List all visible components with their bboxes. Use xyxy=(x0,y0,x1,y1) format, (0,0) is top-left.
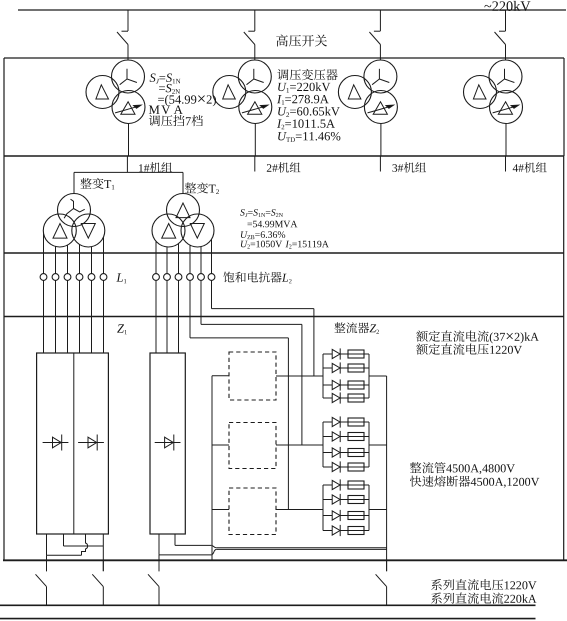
diode D31 xyxy=(323,484,332,486)
label 系列直流电压1220V xyxy=(431,579,442,590)
label SJ=S1N xyxy=(150,74,156,82)
wire to dashed box 3 xyxy=(212,509,229,511)
label 3#机组 xyxy=(392,164,397,172)
fuse F22 xyxy=(348,433,364,441)
diode symbol cabinet 1B xyxy=(78,442,104,444)
wire ~220kV top bus xyxy=(18,9,566,11)
rectifier group Z2-3 right bus xyxy=(368,485,370,531)
wire T1 lead xyxy=(79,244,81,273)
wire lead to rectifier Z1 cabinet 2 xyxy=(178,280,180,353)
label I2=1011.5A xyxy=(277,120,282,128)
diode D11 xyxy=(323,353,332,355)
wire T1 lead xyxy=(91,247,93,274)
T1 delta winding circle xyxy=(43,214,76,247)
diode D22 xyxy=(323,436,332,438)
saturable reactor L1 element xyxy=(40,274,47,281)
disconnector switch QS4 (高压开关) xyxy=(505,10,507,31)
wire stub unit 3 xyxy=(379,156,381,172)
label 高压开关 xyxy=(276,34,288,46)
disconnector switch QS1 (高压开关) xyxy=(127,10,129,31)
regulating transformer T1 (调压变压器) - star winding circle xyxy=(112,60,145,93)
label M xyxy=(149,106,160,114)
label 系列直流电流220kA xyxy=(431,593,442,604)
wire lead to rectifier Z1 xyxy=(103,280,105,353)
series switch S4 xyxy=(386,560,388,571)
wire lead to rectifier Z1 xyxy=(91,280,93,353)
label =54.99MVA xyxy=(247,223,252,225)
label 额定直流电流(37×2)kA xyxy=(416,330,428,341)
wire T2 lead xyxy=(189,245,191,273)
rectifier transformer T2 (整变T2) top winding circle (delta) xyxy=(167,194,200,227)
label ~220kV xyxy=(484,5,491,7)
label 整流管4500A,4800V xyxy=(410,462,421,473)
rectifier group Z2-1 left bus xyxy=(322,354,324,398)
diode symbol cabinet 2 xyxy=(155,442,181,444)
wire cab1 foot a xyxy=(46,534,48,555)
wire T2 lead xyxy=(200,247,202,274)
saturable reactor L2 element xyxy=(164,274,171,281)
wire lead to rectifier Z1 xyxy=(67,280,69,353)
label Z1 xyxy=(117,324,124,332)
diode D32 xyxy=(323,499,332,501)
diode D34 xyxy=(323,530,332,532)
label V xyxy=(161,106,170,115)
wire T2 lead xyxy=(166,247,168,274)
saturable reactor L1 element xyxy=(88,274,95,281)
diode symbol cabinet 1A xyxy=(43,442,69,444)
disconnector switch QS2 (高压开关) xyxy=(254,10,256,31)
wire Z2 left bus xyxy=(211,376,213,560)
T3 regulating winding circle with arrow xyxy=(364,91,397,124)
wire T1 lead xyxy=(67,245,69,274)
wire lead to Z2 (staircase 3) xyxy=(211,280,213,308)
saturable reactor L1 element xyxy=(52,274,59,281)
fuse F24 xyxy=(348,463,364,471)
wire cab2 foot a xyxy=(158,534,160,555)
wire dashed box 3 to group 3 input xyxy=(276,509,323,511)
fuse F14 xyxy=(348,394,364,402)
label =S2N xyxy=(159,86,165,89)
wire to dashed box 2 xyxy=(212,444,229,446)
T2 delta winding circle xyxy=(152,214,185,247)
wire cab1 foot d xyxy=(102,534,104,546)
fuse F34 xyxy=(348,527,364,535)
rectifier cabinet Z1 unit 1 xyxy=(37,353,109,534)
diode D21 xyxy=(323,421,332,423)
fuse F23 xyxy=(348,449,364,457)
series switch S1 xyxy=(46,560,48,571)
fuse F13 xyxy=(348,381,364,389)
wire lead to rectifier Z1 xyxy=(43,280,45,353)
fuse F11 xyxy=(348,350,364,358)
diode D14 xyxy=(323,397,332,399)
wire cab1 foot c (hops crossing) to a xyxy=(82,534,88,555)
wire bottom frame xyxy=(0,618,536,620)
wire switch feed xyxy=(46,555,48,571)
dashed box (reserved rectifier) 3 xyxy=(229,488,276,535)
saturable reactor L2 element xyxy=(153,274,160,281)
T2 regulating winding circle with arrow xyxy=(239,91,272,124)
rectifier group Z2-1 right bus xyxy=(368,354,370,398)
wire T2 lead xyxy=(211,239,213,273)
wire lead to rectifier Z1 cabinet 2 xyxy=(155,280,157,353)
wire to dashed box 1 xyxy=(212,375,229,377)
fuse F32 xyxy=(348,496,364,504)
saturable reactor L1 element xyxy=(100,274,107,281)
wire T1 lead xyxy=(43,233,45,274)
rectifier group Z2-2 right bus xyxy=(368,422,370,467)
label 整变T1 xyxy=(80,178,91,189)
disconnector switch QS3 (高压开关) xyxy=(379,10,381,31)
wire unit1 drop xyxy=(126,156,128,172)
label I2=15119A xyxy=(285,241,289,247)
wire jog over Z2 bus 2 xyxy=(211,545,216,547)
wire lead to rectifier Z1 xyxy=(79,280,81,353)
rectifier group Z2-2 left bus xyxy=(322,422,324,467)
T1 inverse-star winding circle xyxy=(72,214,105,247)
diode D23 xyxy=(323,452,332,454)
wire T2 to unit bus xyxy=(254,124,256,157)
saturable reactor L1 element xyxy=(64,274,71,281)
wire lead to rectifier Z1 cabinet 2 xyxy=(166,280,168,353)
wire cab1 foot b to d xyxy=(63,534,65,546)
label 调压变压器 xyxy=(277,69,288,80)
saturable reactor L2 element xyxy=(208,274,215,281)
saturable reactor L2 element xyxy=(187,274,194,281)
saturable reactor L2 element xyxy=(175,274,182,281)
T1 delta winding circle xyxy=(86,76,119,109)
label U1=220kV xyxy=(278,83,287,91)
wire T1 lead xyxy=(55,246,57,273)
fuse F33 xyxy=(348,512,364,520)
T1 regulating winding circle with arrow xyxy=(112,91,145,124)
wire Z2 output bus xyxy=(386,376,388,571)
wire switch feed xyxy=(102,546,104,571)
diode D24 xyxy=(323,466,332,468)
diode D12 xyxy=(323,367,332,369)
wire stub unit 4 xyxy=(505,156,507,172)
wire group 2 output xyxy=(369,444,387,446)
label U2=1050V xyxy=(241,241,248,248)
saturable reactor L2 element xyxy=(198,274,205,281)
wire cab2 foot b xyxy=(174,534,176,545)
wire dashed box 1 to group 1 input xyxy=(276,375,323,377)
label 4#机组 xyxy=(513,164,518,172)
wire series DC bus 1 xyxy=(3,559,567,561)
rectifier group Z2-3 left bus xyxy=(322,485,324,531)
wire to rectifier transformers xyxy=(74,171,183,173)
wire lead to Z2 (staircase 2) xyxy=(200,280,202,324)
label 快速熔断器4500A,1200V xyxy=(410,476,421,487)
wire lead to Z2 (staircase 1) xyxy=(189,280,191,338)
label 2#机组 xyxy=(267,164,272,172)
series switch S2 xyxy=(102,560,104,571)
cabinet divider xyxy=(73,353,75,534)
dashed box (reserved rectifier) 2 xyxy=(229,423,276,469)
wire T3 to unit bus xyxy=(380,124,382,157)
wire switch feed xyxy=(158,555,160,571)
wire lead to rectifier Z1 xyxy=(55,280,57,353)
fuse F12 xyxy=(348,364,364,372)
wire T2 lead xyxy=(155,241,157,273)
series switch S3 xyxy=(158,560,160,571)
label A xyxy=(174,105,183,113)
wire group 3 output xyxy=(369,509,387,511)
T2 inverse-star winding circle xyxy=(181,214,214,247)
T3 delta winding circle xyxy=(338,76,371,109)
diode D33 xyxy=(323,515,332,517)
label SJ=S1N=S2N xyxy=(240,209,245,216)
regulating transformer T4 (调压变压器) - star winding circle xyxy=(489,60,522,93)
label I1=278.9A xyxy=(277,95,282,103)
label 整流器Z2 xyxy=(334,322,345,333)
rectifier transformer T1 (整变T1) top winding circle (zigzag) xyxy=(58,194,91,227)
label UZB=6.36% xyxy=(241,231,248,238)
label =(54.99×2) xyxy=(158,98,164,101)
regulating transformer T3 (调压变压器) - star winding circle xyxy=(364,60,397,93)
diode D13 xyxy=(323,384,332,386)
label 1#机组 xyxy=(139,164,143,172)
label 调压挡7档 xyxy=(149,115,160,126)
label U2=60.65kV xyxy=(278,107,287,115)
dashed box (reserved rectifier) 1 xyxy=(229,352,276,400)
label 整变T2 xyxy=(185,182,196,193)
fuse F21 xyxy=(348,418,364,426)
regulating transformer T2 (调压变压器) - star winding circle xyxy=(238,60,271,93)
saturable reactor L1 element xyxy=(76,274,83,281)
wire dashed box 2 to group 2 input xyxy=(276,444,323,446)
wire stub unit 2 xyxy=(254,156,256,172)
fuse F31 xyxy=(348,481,364,489)
wire T2 lead xyxy=(178,244,180,274)
rectifier cabinet Z1 unit 2 xyxy=(150,353,185,534)
node section frame xyxy=(4,57,564,59)
wire T4 to unit bus xyxy=(505,124,507,157)
wire T1 to unit bus xyxy=(128,124,130,157)
wire jog over Z2 bus xyxy=(211,549,216,555)
label UTD=11.46% xyxy=(278,132,287,140)
T2 delta winding circle xyxy=(213,76,246,109)
label L1 xyxy=(116,273,123,281)
label 饱和电抗器L2 xyxy=(223,272,234,283)
T4 regulating winding circle with arrow xyxy=(490,91,523,124)
wire group 1 output xyxy=(369,375,387,377)
T4 delta winding circle xyxy=(464,76,497,109)
label 额定直流电压1220V xyxy=(416,343,428,354)
wire T1 lead xyxy=(103,237,105,274)
wire series DC bus 2 xyxy=(0,604,536,606)
